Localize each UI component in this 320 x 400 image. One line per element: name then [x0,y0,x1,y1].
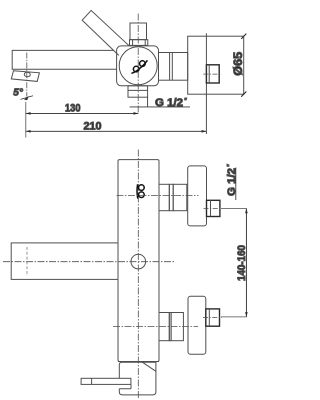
aerator outlet ellipse [24,72,30,77]
diverter circle [131,254,146,269]
inlet top centerline [117,194,199,196]
5deg arc arrow [21,96,34,100]
wall line [205,33,207,134]
logo (top view) [131,60,147,73]
knob base [130,40,148,46]
aerator hidden line [26,247,28,276]
wall nut G1/2 [206,65,219,83]
logo (front) [137,184,144,198]
dim 130 [25,102,27,138]
body (front) [118,160,159,362]
bottom wall nut [206,309,220,326]
bottom port G1/2 [128,86,148,97]
wall bracket [119,362,156,395]
dim Ø65 ticks [241,34,246,97]
top wall nut [207,200,220,216]
dim 140-160 extension lines [221,208,246,317]
inlet bottom centerline [113,325,198,327]
body centerline (front) [137,150,139,399]
svg-text:″: ″ [225,164,234,167]
bottom nut centerline [203,317,222,319]
top union neck [159,184,169,210]
dim 210 [26,130,207,132]
svg-text:G 1/2: G 1/2 [155,97,183,109]
spout (front) [11,243,118,280]
body (top view) [117,46,159,86]
wall flange [188,36,244,94]
top nut centerline [204,207,223,209]
spout centerline [3,261,175,263]
G1/2 underline (rotated) [235,168,237,201]
body bottom step [118,361,159,363]
bottom wall flange [188,296,206,354]
nut centerline [203,73,222,75]
body centerline [137,14,139,114]
svg-text:210: 210 [84,121,102,133]
shower holder bar [81,378,131,384]
bracket chamfer line [142,362,156,371]
knob on top [130,23,147,40]
svg-text:140-160: 140-160 [236,245,248,281]
bottom union neck [159,313,169,341]
G1/2 leader + underline [130,97,190,107]
svg-text:″: ″ [184,96,187,105]
svg-text:130: 130 [65,102,81,114]
aerator centerline [26,53,28,97]
bar support notch [119,384,131,388]
cartridge circle [119,47,157,85]
handle lever [82,10,129,55]
svg-text:5°: 5° [13,87,24,98]
aerator (tilted 5deg) [11,71,39,82]
neck / union [159,53,188,81]
spout [12,50,116,69]
dim 140-160 line [245,208,247,317]
top wall flange [188,166,207,226]
svg-text:Ø65: Ø65 [233,51,245,76]
